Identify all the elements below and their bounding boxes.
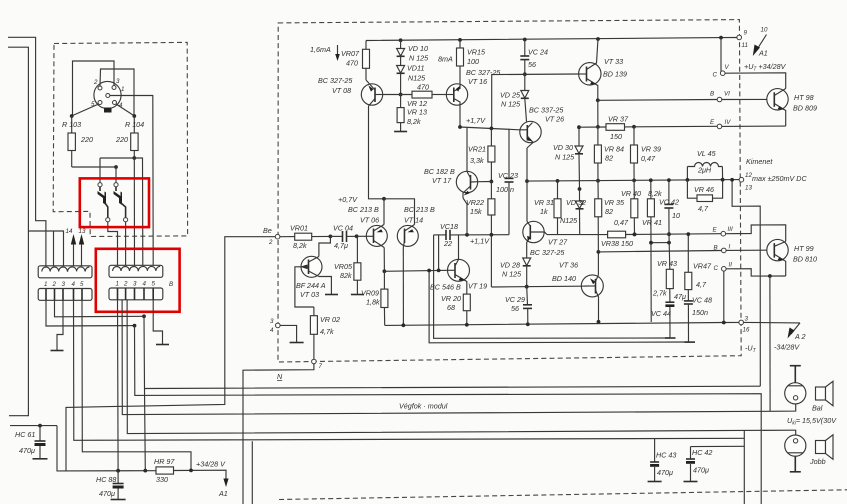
wire VT08 collector to VT06/VT14 [369, 106, 385, 199]
wire branch to block A pin3 [28, 231, 63, 266]
rail mid output [527, 180, 739, 182]
resistor VR09 [383, 271, 385, 289]
svg-text:VT 26: VT 26 [545, 115, 564, 124]
svg-text:BD 809: BD 809 [793, 104, 817, 113]
node VT17 base [490, 180, 494, 184]
wire bus LB (B pin3 to lower right) [135, 326, 762, 504]
svg-text:68: 68 [447, 303, 455, 312]
svg-text:1,6mA: 1,6mA [310, 45, 331, 54]
red highlight box 2 [96, 249, 180, 312]
wire VT33 base line [492, 74, 579, 127]
resistor VR84 [597, 127, 599, 145]
svg-text:15k: 15k [470, 207, 482, 216]
svg-text:3,3k: 3,3k [470, 156, 484, 165]
svg-text:+UT +34/28V: +UT +34/28V [744, 62, 787, 73]
svg-text:VR07: VR07 [341, 49, 360, 58]
svg-text:470μ: 470μ [657, 468, 673, 477]
column VR43 VC44 [668, 242, 670, 244]
svg-text:2: 2 [52, 281, 57, 288]
svg-text:N 125: N 125 [501, 100, 521, 109]
wire E-III to HT99 collector [726, 225, 786, 242]
svg-text:VD 28: VD 28 [500, 261, 520, 270]
wire switch1 feed [100, 158, 143, 266]
svg-text:BC 327-25: BC 327-25 [318, 76, 353, 85]
transistor VT14 BC213B [397, 225, 418, 246]
capacitor VC23 [508, 129, 510, 178]
svg-text:+34/28 V: +34/28 V [196, 460, 226, 469]
svg-text:A1: A1 [758, 49, 768, 58]
svg-text:2,7k: 2,7k [652, 289, 667, 298]
svg-text:56: 56 [511, 304, 519, 313]
transistor HT98 BD809 [767, 89, 788, 110]
transistor VT27 BC327-25 [523, 221, 544, 242]
terminal 9/11 [737, 35, 742, 40]
svg-text:VR 31: VR 31 [534, 198, 554, 207]
node HC88 [116, 469, 120, 473]
wire Kimenet output down [732, 180, 760, 386]
wire switch1 to block B pin1 [108, 222, 118, 266]
svg-text:VC18: VC18 [440, 222, 458, 231]
svg-text:8,2k: 8,2k [293, 241, 307, 250]
wire VT19 collector [458, 235, 460, 260]
jack Jobb [785, 435, 806, 456]
terminal C/II [722, 267, 727, 272]
svg-text:-34/28V: -34/28V [774, 343, 800, 352]
svg-text:5: 5 [152, 281, 156, 288]
wire VD28 node line [491, 285, 580, 288]
wire B-VI to HT98 base [722, 98, 767, 100]
wire C-V to HT98 collector [725, 73, 786, 89]
wire output to Bal jack [769, 276, 771, 411]
svg-text:VR 02: VR 02 [320, 315, 340, 324]
svg-text:BC 182 B: BC 182 B [424, 167, 455, 176]
column VR47 VC48 [687, 234, 689, 272]
DIN connector socket [94, 81, 121, 108]
svg-text:VT 06: VT 06 [360, 216, 379, 225]
wire B pin5 to ground [153, 300, 162, 344]
arrow signal 14 [73, 240, 75, 266]
connector block A lower [38, 289, 92, 301]
node R103 top [70, 114, 74, 118]
svg-text:100 n: 100 n [496, 185, 514, 194]
capacitor HC61 [10, 425, 57, 427]
svg-text:+0,7V: +0,7V [338, 195, 358, 204]
svg-text:VR15: VR15 [467, 48, 486, 57]
node rail-pin4 [143, 469, 147, 473]
wire E-IV to HT98 emitter [722, 125, 786, 127]
svg-text:N125: N125 [408, 74, 426, 83]
svg-text:A1: A1 [218, 489, 228, 498]
wire +34 rail [57, 426, 156, 471]
node at B pin3 column [133, 324, 137, 328]
transistor VT16 BC327-25 [446, 84, 467, 105]
capacitor VC04 [330, 235, 342, 237]
terminal 3/16 [739, 320, 744, 325]
svg-text:0,47: 0,47 [614, 218, 629, 227]
arrow A1 top [756, 35, 767, 52]
wire R104 node down to B pin3 [133, 158, 135, 266]
ground A [51, 350, 64, 352]
svg-text:VR05: VR05 [334, 262, 353, 271]
svg-text:BC 213 B: BC 213 B [404, 205, 435, 214]
speaker icon Jobb [816, 441, 826, 454]
inductor VL45 [687, 163, 722, 167]
svg-text:3: 3 [116, 78, 120, 85]
resistor VR07 [365, 41, 367, 50]
resistor VR02 [313, 307, 315, 316]
rail E-III with resistor VR38 [547, 234, 608, 236]
svg-text:1k: 1k [540, 207, 548, 216]
terminal 3/4 [276, 323, 281, 328]
svg-text:3: 3 [270, 318, 274, 325]
svg-text:I: I [729, 244, 731, 251]
svg-text:HT 98: HT 98 [794, 93, 814, 102]
svg-text:B: B [710, 91, 714, 98]
resistor VR22 [490, 182, 492, 199]
diode VD25 [524, 74, 526, 90]
svg-text:Végfok · modul: Végfok · modul [399, 402, 448, 411]
svg-text:VR 20: VR 20 [441, 294, 461, 303]
svg-text:BF 244 A: BF 244 A [296, 281, 326, 290]
wire B pin4 column continues to +34 rail [144, 389, 147, 471]
resistor VR40 [633, 180, 635, 198]
connector block A upper [38, 266, 92, 278]
transistor HT99 BD810 [767, 239, 788, 260]
svg-text:4: 4 [270, 327, 274, 334]
svg-text:470μ: 470μ [19, 446, 35, 455]
wire VT03 source to ground [319, 277, 332, 295]
svg-text:VT 33: VT 33 [604, 57, 623, 66]
svg-text:VR21: VR21 [468, 145, 486, 154]
node rail-HR97 [189, 469, 193, 473]
wire bus LD (B pin2a to Bal jack) [122, 300, 770, 415]
svg-text:C: C [714, 265, 719, 272]
svg-text:VT 08: VT 08 [332, 86, 351, 95]
red highlight box 1 [80, 178, 149, 227]
resistor VR05 [356, 238, 358, 263]
svg-text:VR47: VR47 [693, 262, 712, 271]
svg-text:330: 330 [156, 475, 168, 484]
svg-text:BD 140: BD 140 [552, 274, 576, 283]
svg-text:150n: 150n [692, 308, 708, 317]
wire A2 rail [744, 321, 801, 324]
wire B-VI line [598, 99, 717, 102]
capacitor VC24 [524, 40, 526, 56]
svg-text:VR01: VR01 [290, 224, 308, 233]
wire C-II down to A2 rail [723, 271, 725, 322]
svg-text:+1,1V: +1,1V [470, 237, 490, 246]
svg-text:HC 88: HC 88 [96, 475, 116, 484]
svg-text:HC 43: HC 43 [656, 451, 676, 460]
svg-text:1: 1 [44, 281, 47, 288]
svg-text:VC 42: VC 42 [659, 198, 679, 207]
svg-text:VR22: VR22 [466, 198, 484, 207]
diode VD28 [526, 257, 528, 259]
wire N-node run from terminal 7 [243, 364, 314, 504]
svg-text:220: 220 [80, 135, 93, 144]
connector block B upper [109, 265, 163, 277]
svg-text:220: 220 [115, 135, 128, 144]
svg-text:B: B [169, 281, 173, 288]
wire switch2 feed [72, 166, 116, 168]
svg-text:Jobb: Jobb [809, 457, 826, 466]
svg-text:2: 2 [268, 239, 273, 246]
wire A pin4 bus to module bottom [74, 300, 745, 440]
arrow signal 13 [81, 240, 83, 266]
svg-text:Bal: Bal [812, 404, 823, 413]
svg-text:VR09: VR09 [361, 289, 379, 298]
svg-text:470: 470 [417, 83, 429, 92]
svg-text:4: 4 [143, 281, 147, 288]
node R104 bottom [132, 156, 136, 160]
wire VT36 collector [597, 252, 599, 275]
wire VT03 drain [319, 236, 331, 256]
svg-text:BD 139: BD 139 [603, 70, 627, 79]
diode VD11 [400, 56, 402, 65]
svg-text:150: 150 [610, 132, 622, 141]
wire VT17 emitter [463, 198, 467, 235]
capacitor HC88 [117, 471, 119, 483]
svg-text:5: 5 [80, 281, 84, 288]
wire B-I to HT99 base [726, 249, 767, 251]
wire VT26 emitter to mid rail [526, 148, 528, 181]
svg-text:C: C [713, 72, 718, 79]
terminal 7 [312, 359, 317, 364]
svg-text:7: 7 [319, 363, 323, 370]
svg-text:470: 470 [346, 59, 358, 68]
svg-text:VC 23: VC 23 [498, 171, 518, 180]
svg-text:13: 13 [745, 185, 752, 192]
terminal B/I [722, 248, 727, 253]
svg-text:VR 84: VR 84 [604, 145, 624, 154]
svg-text:1: 1 [121, 86, 124, 93]
svg-text:A 2: A 2 [794, 332, 806, 341]
transistor VT36 BD140 [581, 275, 603, 297]
svg-text:8,2k: 8,2k [407, 117, 421, 126]
wire B-I line [598, 251, 721, 252]
wire DIN pin1 to B pin5 [110, 96, 153, 267]
svg-text:8mA: 8mA [438, 55, 453, 64]
svg-text:VR 13: VR 13 [407, 108, 427, 117]
wire A pin2 to node [55, 300, 145, 317]
svg-text:HC 42: HC 42 [692, 448, 712, 457]
svg-text:4,7: 4,7 [698, 204, 709, 213]
svg-text:3: 3 [62, 281, 66, 288]
svg-text:B: B [714, 245, 718, 252]
wire DIN pin2 loop [100, 69, 134, 116]
wire HC42 tap [691, 445, 745, 447]
wire B pin2b to Jobb line [127, 300, 796, 439]
wire A pin3 to ground [57, 300, 63, 350]
capacitor VC29 [526, 287, 529, 305]
diode VD30 [578, 127, 580, 146]
wire VT19 base line [384, 270, 447, 271]
svg-text:VC 29: VC 29 [505, 295, 525, 304]
wire DIN pin5 diagonal [72, 104, 99, 116]
transistor VT19 BC546B [448, 259, 470, 281]
resistor VR31 [557, 181, 559, 199]
transistor VT06 BC213B [366, 225, 387, 246]
wire left-edge feed 2 [8, 47, 28, 416]
switch contact S2 [114, 183, 118, 187]
svg-text:100: 100 [467, 57, 479, 66]
transistor VT08 BC327-25 [361, 84, 382, 105]
svg-text:VC 48: VC 48 [692, 296, 712, 305]
svg-text:VR 43: VR 43 [657, 259, 677, 268]
svg-text:4,7: 4,7 [696, 280, 707, 289]
terminal B/VI [717, 97, 722, 102]
left dashed enclosure box [53, 42, 187, 236]
svg-text:VI: VI [724, 91, 730, 98]
svg-text:VL 45: VL 45 [697, 149, 717, 158]
wire bus LC (input Be run) [66, 237, 278, 471]
terminal C/V [720, 71, 725, 76]
resistor VR41 [650, 180, 652, 199]
svg-text:VR 39: VR 39 [641, 145, 661, 154]
terminal Kimenet 12/13 [739, 177, 744, 182]
svg-text:VT 03: VT 03 [300, 290, 319, 299]
wire LB descender HC taps [743, 430, 745, 504]
svg-text:VC 24: VC 24 [528, 48, 548, 57]
node VD11-base [399, 93, 403, 97]
resistor VR20 [463, 294, 470, 311]
svg-text:VD11: VD11 [407, 64, 424, 73]
svg-text:1,8k: 1,8k [366, 298, 380, 307]
resistor R104 [133, 116, 135, 133]
rail +1,1V with capacitor VC18 [434, 234, 446, 236]
svg-text:VR 46: VR 46 [694, 185, 714, 194]
wire top rail to C-V [721, 38, 723, 74]
svg-text:4,7k: 4,7k [320, 327, 334, 336]
svg-text:N: N [277, 372, 283, 381]
node VT33 emitter [596, 98, 600, 102]
svg-text:BC 327-25: BC 327-25 [530, 248, 565, 257]
svg-text:VR 40: VR 40 [621, 189, 641, 198]
svg-text:47μ: 47μ [674, 292, 686, 301]
node R104 top [132, 114, 136, 118]
switch contact S1 [98, 183, 102, 187]
svg-text:470μ: 470μ [693, 466, 709, 475]
resistor VR46 [687, 180, 697, 198]
ground B [156, 344, 169, 346]
diode VD10 [400, 40, 402, 48]
wire VT27 emitter [526, 181, 528, 221]
svg-text:4: 4 [72, 281, 76, 288]
wire switch2 to block B pin2 [125, 222, 127, 266]
resistor VR39 [633, 127, 635, 145]
svg-text:BC 213 B: BC 213 B [348, 205, 379, 214]
wire rail R2 [434, 235, 670, 338]
svg-text:9: 9 [744, 30, 748, 37]
svg-text:VT 36: VT 36 [559, 261, 578, 270]
wire left-edge feed 1 [8, 37, 46, 266]
svg-text:Be: Be [263, 226, 272, 235]
wire DIN pin3 loop [73, 61, 115, 116]
svg-text:N 125: N 125 [409, 54, 429, 63]
transistor VT17 BC182B [456, 171, 477, 192]
terminal E/IV [717, 124, 722, 129]
svg-text:82: 82 [605, 207, 613, 216]
wire C-II to HT99 emitter [726, 269, 786, 276]
wire VT33 emitter to VR37 rail [597, 100, 599, 127]
top supply rail [366, 38, 737, 41]
svg-text:IV: IV [725, 119, 732, 126]
wire VT06 emitter to VR09 [383, 248, 385, 272]
diode VD32 [576, 201, 584, 209]
resistor VR35 [597, 181, 599, 199]
svg-text:1: 1 [116, 281, 119, 288]
svg-text:VT 17: VT 17 [432, 176, 452, 185]
svg-text:HR 97: HR 97 [154, 457, 175, 466]
wire rail R3 [429, 271, 689, 343]
svg-text:VC 44: VC 44 [651, 309, 671, 318]
svg-text:13: 13 [79, 228, 86, 235]
svg-text:+1,7V: +1,7V [466, 116, 486, 125]
transistor VT26 BC337-25 [520, 121, 541, 142]
resistor VR15 [459, 40, 461, 48]
svg-text:VR38 150: VR38 150 [601, 239, 633, 248]
svg-text:max ±250mV DC: max ±250mV DC [752, 174, 807, 183]
svg-text:VR 37: VR 37 [608, 115, 629, 124]
wire B pin1 to +34 rail [117, 300, 120, 471]
svg-text:VD 30: VD 30 [553, 143, 573, 152]
svg-text:III: III [728, 226, 733, 233]
svg-text:56: 56 [528, 60, 536, 69]
svg-text:2μH: 2μH [697, 166, 712, 175]
connector block B lower [109, 288, 163, 300]
wire bus LA (B pin4 to right module output) [144, 316, 760, 388]
arrow A2 supply [791, 323, 800, 334]
transistor VT33 BD139 [579, 63, 601, 85]
svg-text:470μ: 470μ [99, 489, 115, 498]
wire terminal34 to ground [280, 325, 297, 342]
svg-text:16: 16 [743, 327, 750, 334]
svg-text:VD 32: VD 32 [566, 198, 586, 207]
svg-text:14: 14 [66, 228, 73, 235]
svg-text:4,7μ: 4,7μ [334, 241, 348, 250]
resistor HR97 [156, 467, 174, 474]
svg-text:N 125: N 125 [555, 153, 575, 162]
svg-text:VT 16: VT 16 [468, 77, 487, 86]
wire DIN pin4 diagonal [116, 104, 135, 116]
svg-text:VC 04: VC 04 [333, 224, 353, 233]
capacitor HC43 [654, 439, 656, 462]
svg-text:Kimenet: Kimenet [746, 157, 773, 166]
resistor VR37 [579, 126, 606, 128]
node VC04-VT06 [355, 234, 359, 238]
node at B pin4 column [142, 314, 146, 318]
svg-text:82k: 82k [340, 271, 352, 280]
arrow A1 supply [223, 479, 228, 488]
svg-text:VT 27: VT 27 [548, 238, 568, 247]
svg-text:VT 19: VT 19 [468, 282, 487, 291]
wire VC18 node to VT19 base node [438, 235, 440, 271]
bridge VR41-VC42 columns [651, 242, 669, 244]
svg-text:11: 11 [742, 42, 748, 49]
svg-text:BC 327-25: BC 327-25 [466, 68, 501, 77]
svg-text:R 103: R 103 [62, 120, 81, 129]
svg-text:22: 22 [443, 239, 452, 248]
wire VR37 rail to E-IV terminal [634, 125, 717, 128]
svg-text:VT 14: VT 14 [404, 216, 423, 225]
resistor VR01 [280, 236, 295, 238]
resistor VR13 [400, 95, 402, 108]
svg-text:BC 337-25: BC 337-25 [529, 106, 564, 115]
svg-text:82: 82 [605, 154, 613, 163]
wire VT14 emitter down [402, 248, 404, 326]
svg-text:N125: N125 [560, 216, 578, 225]
speaker icon Bal [816, 387, 826, 400]
